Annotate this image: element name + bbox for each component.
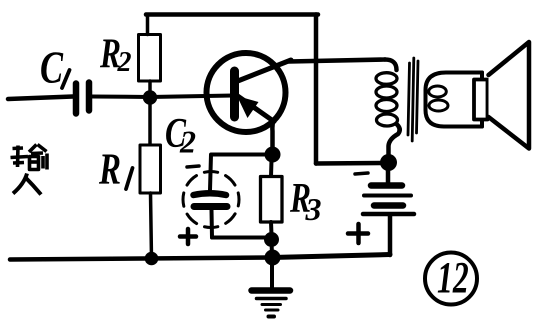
node R3 bottom junction — [264, 232, 279, 247]
figure number 12 — [425, 253, 477, 305]
wire R1 bottom to ground rail — [151, 193, 152, 259]
label C2 — [165, 111, 196, 160]
wire top rail — [146, 12, 318, 17]
transformer T1 secondary — [426, 73, 483, 127]
label battery minus — [355, 173, 368, 174]
label R2 — [99, 31, 131, 78]
wire R2 bottom to base node — [148, 81, 152, 97]
svg-text:R: R — [98, 145, 121, 194]
capacitor C1 — [76, 83, 89, 114]
wire emitter down — [272, 121, 273, 151]
wire input top — [8, 97, 73, 100]
battery B1 — [363, 163, 414, 214]
svg-text:C: C — [40, 42, 64, 93]
wire battery plus lead — [388, 216, 393, 255]
label R3 — [289, 176, 321, 227]
label C2 minus — [187, 166, 199, 167]
wire base node to R1 — [148, 97, 152, 145]
svg-text:12: 12 — [437, 254, 469, 302]
wire emitter junction to C2 top — [210, 155, 272, 191]
wire R2 top to rail — [146, 15, 150, 35]
svg-text:2: 2 — [117, 47, 132, 78]
node base junction — [143, 90, 157, 104]
label R1 — [98, 145, 132, 194]
svg-text:3: 3 — [305, 191, 322, 227]
wire R3 bottom — [269, 222, 274, 235]
transistor Q1 — [207, 53, 292, 132]
wire emitter junction to R3 — [269, 160, 274, 177]
capacitor C2 electrolytic — [183, 172, 239, 238]
label C2 plus — [180, 229, 196, 244]
node ground rail junction — [265, 250, 281, 266]
wire junction to ground rail — [270, 240, 275, 258]
node battery minus junction — [380, 154, 397, 171]
wire collector to transformer — [289, 60, 385, 62]
wire to battery minus junction — [316, 161, 386, 166]
wire base — [150, 96, 233, 98]
label input hanzi shu — [11, 145, 48, 170]
resistor R2 — [139, 35, 161, 82]
wire C2 bottom to R3 bottom junction — [212, 236, 267, 240]
wire rail down right side — [314, 15, 319, 164]
wire C1 to base node — [92, 95, 150, 100]
label input hanzi ru — [13, 174, 41, 195]
speaker LS1 — [474, 42, 529, 149]
resistor R3 — [261, 177, 283, 223]
transformer T1 primary — [376, 60, 400, 157]
ground — [252, 258, 291, 317]
label battery plus — [348, 224, 368, 243]
svg-text:2: 2 — [179, 124, 196, 160]
wire bottom rail left — [10, 258, 272, 260]
node emitter junction — [265, 147, 281, 163]
resistor R1 — [140, 145, 161, 193]
transformer core — [408, 58, 418, 141]
label C1 — [40, 42, 70, 93]
wire bottom rail right — [272, 255, 390, 258]
node R1 ground junction — [145, 252, 159, 266]
